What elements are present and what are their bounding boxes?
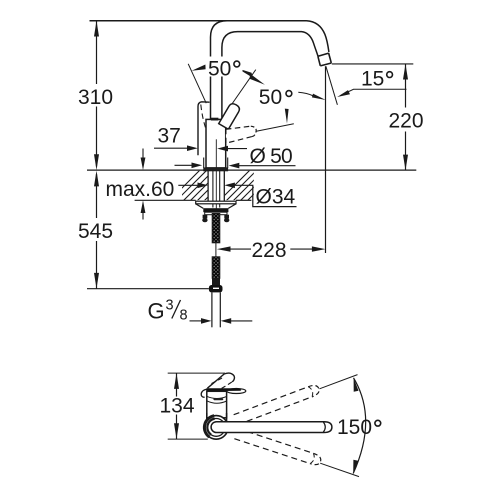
lever solid (up-right position) <box>219 102 241 129</box>
50deg lever axis line (left) <box>188 64 206 103</box>
swivel joint circles <box>204 416 228 440</box>
svg-text:134: 134 <box>160 394 195 417</box>
outlet level extension line <box>332 63 414 65</box>
134 dimension line <box>176 373 178 396</box>
svg-text:50: 50 <box>208 57 231 80</box>
svg-text:Ø 50: Ø 50 <box>250 145 292 168</box>
shank through counter <box>207 171 209 201</box>
134 top extension line <box>168 372 225 374</box>
counter bottom line <box>135 199 196 201</box>
handle base oval <box>227 389 246 394</box>
swivel limit lines <box>320 375 358 389</box>
supply pipe below <box>211 292 213 327</box>
G3/8 connection nut <box>209 285 223 292</box>
heel hook <box>201 389 206 397</box>
body (cartridge housing) <box>206 119 226 167</box>
50deg arc arrow left <box>192 65 206 71</box>
svg-text:Ø34: Ø34 <box>256 185 296 208</box>
handle hidden contour (dashed) <box>201 105 208 137</box>
50deg lever axis line (right) <box>230 70 256 108</box>
220 dimension line <box>405 64 407 108</box>
dim arrow to centerline (from right, for 37/Ø50 group) <box>217 146 228 152</box>
310 / 545 dimension line <box>96 21 98 84</box>
top reference extension line <box>90 20 307 22</box>
Ø50 dimension line with outside arrows <box>175 164 196 166</box>
countertop line <box>87 169 416 171</box>
small arrow onto leader <box>285 109 289 124</box>
handle (left, front view) solid edge <box>198 102 210 156</box>
svg-text:310: 310 <box>78 86 113 109</box>
outlet 15 deg axis line <box>326 66 338 105</box>
svg-text:228: 228 <box>252 239 287 262</box>
svg-text:545: 545 <box>78 220 113 243</box>
svg-text:15: 15 <box>361 67 384 90</box>
228 dimension <box>217 246 231 251</box>
Ø50 extension ticks at escutcheon edges <box>203 158 205 169</box>
centerline <box>215 139 217 213</box>
mounting nut <box>203 208 228 212</box>
body block <box>207 391 227 418</box>
dashed swivel spout lower <box>234 428 322 466</box>
handle lever profile <box>207 374 224 388</box>
svg-text:37: 37 <box>158 124 181 147</box>
150 deg arc <box>353 378 365 474</box>
Ø34 dimension <box>178 184 199 186</box>
feet <box>203 215 208 219</box>
leader line from dashed lever <box>256 124 294 131</box>
hatch left <box>168 170 285 202</box>
svg-text:3: 3 <box>166 298 174 314</box>
cone <box>196 204 204 209</box>
svg-text:150: 150 <box>337 416 372 439</box>
svg-text:G: G <box>148 299 165 324</box>
545 extension line <box>87 288 209 290</box>
svg-text:220: 220 <box>389 109 424 132</box>
dashed swivel spout upper <box>234 383 321 424</box>
body edges over circle <box>206 413 208 420</box>
outlet vertical extension line <box>325 66 327 253</box>
50deg arc bowtie arrows <box>237 68 252 77</box>
svg-text:max.60: max.60 <box>106 178 175 201</box>
body top junction dark patch <box>211 118 219 121</box>
spout outer contour <box>211 21 228 119</box>
svg-text:50: 50 <box>259 86 282 109</box>
svg-text:8: 8 <box>180 307 188 323</box>
solid spout (pointing right) <box>211 422 332 433</box>
50deg label upper (white mask) <box>207 57 243 77</box>
mounting washer plate <box>196 201 236 204</box>
15 deg leader <box>341 89 407 95</box>
handle base black band <box>206 388 241 391</box>
G3/8 dimension arrows <box>190 320 202 322</box>
50deg lower arc + arrow to outlet vertical <box>298 92 313 96</box>
max.60 arrows <box>142 149 144 161</box>
aerator band <box>318 53 332 66</box>
escutcheon (dark base plate) <box>204 168 228 171</box>
lever dashed (lowered position) <box>226 126 256 143</box>
threaded rod <box>212 214 220 243</box>
134 bottom extension line <box>168 438 208 440</box>
spout inner contour <box>222 32 318 119</box>
